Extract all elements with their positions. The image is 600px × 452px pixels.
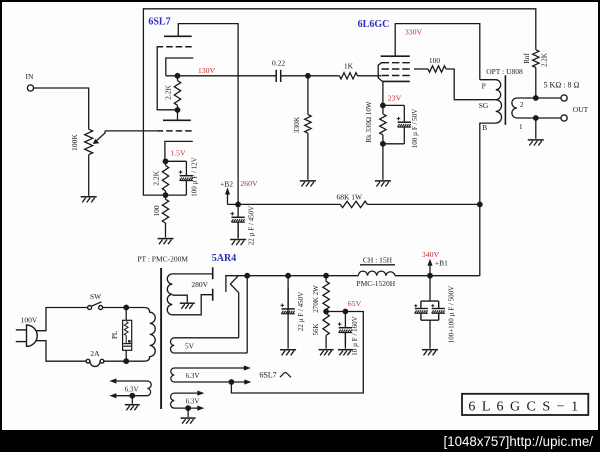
svg-text:23V: 23V [388, 94, 402, 103]
svg-text:6SL7: 6SL7 [259, 371, 276, 380]
rectifier 5AR4 lower plate [212, 289, 214, 301]
svg-text:1K: 1K [344, 62, 354, 71]
svg-text:22 µ F / 450V: 22 µ F / 450V [297, 292, 305, 331]
svg-text:6 L 6 G C S − 1: 6 L 6 G C S − 1 [468, 399, 579, 414]
node NFB injection [163, 192, 169, 198]
ground below Rk [375, 181, 391, 187]
rectifier 5AR4 upper plate [212, 267, 214, 279]
svg-text:2.2K: 2.2K [152, 170, 161, 185]
svg-text:OUT: OUT [573, 105, 589, 114]
node 6.3V-1 ground tap [129, 393, 135, 404]
label 330V [405, 28, 423, 37]
wire wiper to 6SL7 grid [105, 130, 157, 132]
wire OPT B to B rail [480, 123, 496, 276]
AC plug [16, 325, 37, 346]
svg-text:100V: 100V [21, 316, 38, 325]
svg-text:5AR4: 5AR4 [212, 253, 236, 264]
OPT core [504, 75, 506, 125]
svg-text:340V: 340V [422, 250, 440, 259]
OPT primary winding [480, 80, 502, 123]
label 23V [388, 94, 402, 103]
svg-text:100 µ F / 12V: 100 µ F / 12V [191, 157, 199, 196]
node B2 [235, 202, 241, 208]
capacitor 100uF/12V cathode bypass [166, 157, 199, 196]
node 6L6 cathode [380, 103, 386, 109]
svg-text:IN: IN [26, 72, 34, 81]
wire plug to fuse [36, 341, 86, 362]
svg-text:+B2: +B2 [220, 180, 233, 189]
svg-text:100+100 µ F / 500V: 100+100 µ F / 500V [448, 286, 456, 343]
svg-text:6SL7: 6SL7 [148, 17, 170, 28]
wiper arrow of 100K pot [93, 131, 105, 144]
svg-text:65V: 65V [348, 299, 362, 308]
6SL7 upper triode plate [164, 35, 192, 37]
tube 5AR4 label [212, 253, 236, 264]
svg-text:[1048x757]http://upic.me/: [1048x757]http://upic.me/ [444, 434, 594, 449]
arrow +B1 [427, 258, 448, 275]
capacitor 0.22 coupling [272, 59, 285, 83]
svg-text:2: 2 [520, 100, 524, 109]
fuse 2A [86, 349, 126, 367]
node Rk bottom [380, 141, 386, 147]
watermark bar text [444, 434, 594, 449]
pin 1 label [519, 122, 523, 131]
input terminal IN [26, 72, 34, 91]
svg-text:PMC-1520H: PMC-1520H [356, 279, 395, 288]
label 130V [198, 66, 216, 75]
wire 280V bottom to 5AR4 plate [172, 295, 212, 315]
wire pot to ground [88, 155, 90, 196]
svg-text:100: 100 [429, 56, 441, 65]
wire upper grid to lower plate node [157, 47, 177, 110]
6SL7 lower triode cathode [165, 141, 193, 161]
resistor Rnf 2.2K feedback [523, 50, 549, 98]
6L6GC control grid [382, 75, 410, 77]
wire 6L6 cathode down [382, 81, 384, 105]
wire 6SL7 upper plate to B2 rail [178, 24, 238, 205]
svg-text:100: 100 [152, 205, 161, 217]
label 340V [422, 250, 440, 259]
ground below main filter [422, 350, 438, 356]
svg-text:Rnf: Rnf [523, 53, 531, 64]
ground below 100 resistor [158, 239, 174, 245]
pin 2 label [520, 100, 524, 109]
ground at 280V center tap [180, 303, 195, 309]
svg-text:270K 2W: 270K 2W [312, 285, 320, 313]
label 5Kohm 8ohm [544, 80, 580, 89]
svg-text:2.2K: 2.2K [164, 85, 173, 100]
svg-text:6.3V: 6.3V [186, 372, 200, 380]
node B1 [427, 273, 433, 279]
capacitor 100uF/50V cathode bypass [383, 105, 419, 148]
svg-text:6L6GC: 6L6GC [358, 19, 390, 30]
node primary top [123, 305, 129, 311]
arrow +B2 [220, 180, 238, 205]
ground below input filter cap [280, 350, 296, 356]
ground below B2 cap [230, 240, 246, 246]
switch SW [88, 292, 103, 310]
PT 280V secondary winding [167, 274, 172, 315]
node 65V [323, 299, 361, 314]
svg-text:1: 1 [519, 122, 523, 131]
svg-text:+B1: +B1 [435, 258, 448, 267]
node 6L6 grid [305, 73, 311, 79]
ground below 10uF cap [338, 350, 353, 356]
svg-text:OPT : U808: OPT : U808 [486, 67, 523, 76]
svg-text:0.22: 0.22 [272, 59, 285, 68]
resistor 56K bleeder lower [312, 312, 329, 349]
svg-text:Rk 330Ω 10W: Rk 330Ω 10W [365, 101, 373, 142]
svg-text:330V: 330V [405, 28, 423, 37]
svg-text:SG: SG [479, 101, 489, 110]
svg-text:6.3V: 6.3V [186, 398, 200, 406]
wire secondary tap 1 [517, 115, 561, 121]
wire heater bias to 6.3V winding [231, 312, 363, 394]
wire plug to switch [36, 308, 88, 331]
pin B label [482, 123, 487, 132]
label OUT [573, 105, 589, 114]
wire secondary tap 2 [517, 95, 561, 101]
PT 6.3V winding for 6SL7 heater [171, 365, 251, 384]
label 100V [21, 316, 38, 325]
resistor 2.2K SRPP upper cathode [164, 76, 181, 113]
6SL7 lower triode plate [163, 119, 191, 121]
resistor 2.2K lower cathode [152, 161, 169, 195]
ground below 6.3V-1 [125, 405, 140, 411]
svg-text:2A: 2A [90, 349, 100, 358]
wire 280V center tap [172, 295, 187, 302]
output terminal common [561, 115, 567, 121]
svg-text:SW: SW [90, 292, 102, 301]
PT core [160, 268, 162, 409]
ground below 100K pot [81, 197, 97, 203]
wire Rk to ground [382, 144, 384, 180]
node first filter [285, 273, 291, 279]
ground below 330K [300, 181, 316, 187]
capacitor 22uF/450V input filter [281, 276, 306, 349]
label 1.5V [170, 148, 186, 157]
svg-text:100K: 100K [70, 134, 79, 151]
choke CH 15H [356, 255, 395, 288]
resistor 100 NFB leg [152, 195, 168, 237]
6L6GC beam plate bracket [378, 62, 382, 81]
label 6SL7-he [259, 371, 291, 380]
svg-text:130V: 130V [198, 66, 216, 75]
label 5V [185, 342, 195, 351]
svg-text:2.2K: 2.2K [540, 53, 548, 67]
resistor 270K 2W bleeder [312, 276, 329, 313]
title box 6L6GCS-1 [462, 394, 588, 415]
svg-text:260V: 260V [240, 179, 258, 188]
node 68K to OPT B [477, 202, 483, 208]
transformer OPT U808 label [486, 67, 523, 76]
6L6GC plate [381, 55, 410, 57]
wire 280V top to 5AR4 plate [172, 273, 212, 275]
OPT secondary winding [512, 98, 517, 118]
wire 6L6 plate to OPT P [395, 24, 480, 80]
wire 1K to 6L6 grid [358, 75, 382, 77]
svg-text:P: P [482, 82, 486, 91]
wire 65V node [326, 309, 348, 315]
wire switch to primary [103, 307, 127, 309]
PT 6.3V spare winding [171, 391, 205, 411]
node 5AR4 cathode B+ takeoff [244, 273, 250, 353]
PT primary winding [126, 308, 155, 362]
resistor 330K grid leak [292, 76, 311, 180]
6L6GC cathode [382, 80, 409, 82]
svg-text:330K: 330K [292, 116, 301, 133]
resistor Rk 330ohm 10W [365, 101, 386, 144]
svg-text:5 KΩ : 8 Ω: 5 KΩ : 8 Ω [544, 80, 580, 89]
svg-text:1.5V: 1.5V [170, 148, 186, 157]
resistor 100 screen stopper [414, 56, 446, 72]
node 6SL7 cathode 1.5V [163, 158, 169, 164]
ground below secondary [528, 140, 544, 146]
svg-text:PL: PL [111, 331, 119, 339]
svg-text:CH : 15H: CH : 15H [363, 255, 393, 264]
6SL7 upper triode cathode [166, 58, 194, 76]
svg-text:PT : PMC-200M: PT : PMC-200M [137, 255, 188, 264]
wire tap1 to ground [535, 118, 537, 139]
node bleeder top [323, 273, 329, 279]
resistor 68K 1W [238, 193, 480, 208]
wire screen to OPT SG tap [446, 69, 496, 100]
capacitor 10uF/160V heater bias [338, 312, 359, 356]
node primary bottom [123, 358, 129, 364]
6SL7 lower triode grid [157, 130, 192, 132]
pilot lamp PL [111, 308, 132, 362]
node 6.3V-3 ground tap [185, 405, 191, 417]
wire B+ rail [247, 275, 480, 277]
pin P label [482, 82, 486, 91]
6SL7 upper triode grid [157, 46, 192, 48]
negative feedback wire (Rnf top loop) [143, 9, 535, 195]
rectifier 5AR4 filament [226, 276, 247, 338]
node 130V line [166, 73, 276, 79]
ground below 56K [319, 350, 334, 356]
svg-text:B: B [482, 123, 487, 132]
6L6GC screen grid [382, 68, 410, 70]
svg-text:68K 1W: 68K 1W [336, 193, 363, 202]
wire coupling cap to grid node [281, 75, 340, 77]
node heater bias tap [229, 379, 235, 385]
PT 6.3V winding for 6L6 heater [109, 378, 151, 398]
svg-text:100 µ F / 50V: 100 µ F / 50V [411, 109, 419, 148]
label 260V [240, 179, 258, 188]
resistor 1K grid stopper [340, 62, 358, 80]
transformer PT label [137, 255, 188, 264]
output terminal hot [561, 95, 567, 101]
capacitor 22uF/450V B2 filter [231, 204, 256, 245]
PT 5V winding [171, 338, 248, 353]
pin SG label [479, 101, 489, 110]
wire input to potentiometer [34, 88, 89, 129]
tube 6SL7 label [148, 17, 170, 28]
6L6GC suppressor grid [382, 62, 410, 64]
tube 6L6GC label [358, 19, 390, 30]
label 280V [191, 280, 208, 289]
svg-text:22 µ F / 450V: 22 µ F / 450V [247, 206, 255, 245]
capacitor 100+100uF/500V main filter [414, 276, 455, 349]
svg-text:6.3V: 6.3V [125, 386, 139, 394]
ground below 6.3V-3 [181, 418, 196, 424]
svg-text:56K: 56K [312, 323, 320, 335]
svg-text:5V: 5V [185, 342, 195, 351]
potentiometer 100K [70, 129, 92, 155]
svg-text:280V: 280V [191, 280, 208, 289]
wire to 6SL7 lower plate [177, 110, 179, 120]
